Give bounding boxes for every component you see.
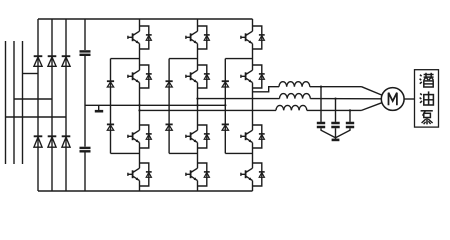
wire leg 2 Q4 to DC- rail — [197, 186, 199, 191]
phase A input line — [5, 41, 7, 164]
clamp diode D11 — [222, 81, 229, 87]
wire phase V output — [198, 98, 280, 100]
junction dot N line at leg1 — [138, 104, 140, 106]
wire leg 2 lower clamp jog — [169, 152, 197, 154]
wire A to rectifier leg — [6, 116, 67, 118]
wire leg 2 Q2-Q3 link — [197, 88, 199, 125]
wire inverter leg 3 top stub — [252, 19, 254, 26]
inductor L2 — [280, 94, 311, 99]
IGBT Q6 with antiparallel diode — [186, 65, 210, 88]
label box outline — [415, 70, 439, 127]
diode D6 — [62, 136, 71, 147]
filter capacitor C5 — [346, 123, 354, 127]
wire leg 1 lower clamp jog — [111, 152, 140, 154]
wire leg 2 Q1-Q2 link — [197, 49, 199, 65]
wire B to rectifier leg — [14, 98, 52, 100]
junction dot C4 tap — [334, 97, 336, 99]
filter capacitor C3 — [317, 123, 325, 127]
IGBT Q7 with antiparallel diode — [186, 125, 210, 148]
motor M1 label — [389, 93, 397, 106]
wire C2 to DC- rail — [84, 153, 86, 192]
wire leg 1 Q4 to DC- rail — [139, 186, 141, 191]
wire leg 3 lower clamp jog — [225, 152, 252, 154]
wire rectifier leg x=38 — [37, 19, 39, 191]
diode D2 — [34, 136, 43, 147]
IGBT Q12 with antiparallel diode — [241, 163, 265, 186]
filter star point marker — [332, 139, 340, 142]
IGBT Q10 with antiparallel diode — [241, 65, 265, 88]
wire leg 1 Q3-Q4 link — [139, 148, 141, 163]
junction dot phase U tap — [138, 109, 140, 111]
IGBT Q11 with antiparallel diode — [241, 125, 265, 148]
wire leg 3 upper clamp jog — [225, 58, 252, 60]
wire phase W staircase — [253, 87, 280, 92]
IGBT Q5 with antiparallel diode — [186, 26, 210, 49]
wire phase W slant to motor — [362, 87, 382, 95]
diode D1 — [34, 56, 43, 66]
IGBT Q3 with antiparallel diode — [128, 125, 152, 148]
wire leg 3 clamp column — [224, 59, 226, 154]
neutral point marker — [95, 105, 103, 111]
wire leg 1 Q2-Q3 link — [139, 88, 141, 125]
wire leg 2 Q3-Q4 link — [197, 148, 199, 163]
capacitor C2 — [80, 148, 91, 151]
junction dot N line end leg3 clamp — [224, 104, 226, 106]
wire C4 to star point — [335, 128, 337, 139]
wire leg 3 Q4 to DC- rail — [252, 186, 254, 191]
diode D4 — [48, 136, 57, 147]
wire rectifier leg x=66 — [65, 19, 67, 191]
clamp diode D10 — [166, 124, 173, 130]
wire leg 1 clamp column — [110, 59, 112, 154]
wire C to rectifier leg — [23, 73, 39, 75]
wire inverter leg 2 top stub — [197, 19, 199, 26]
phase B input line — [13, 41, 15, 164]
IGBT Q4 with antiparallel diode — [128, 163, 152, 186]
wire between C1 and C2 — [84, 56, 86, 147]
capacitor C1 — [80, 51, 91, 54]
junction dot C3 tap — [320, 86, 322, 88]
IGBT Q1 with antiparallel diode — [128, 26, 152, 49]
clamp diode D12 — [222, 124, 229, 130]
wire phase U output — [140, 109, 277, 111]
IGBT Q9 with antiparallel diode — [241, 26, 265, 49]
wire leg 3 Q2-Q3 link — [252, 88, 254, 125]
wire inverter leg 1 top stub — [139, 19, 141, 26]
diode D5 — [62, 56, 71, 66]
clamp diode D7 — [107, 81, 114, 87]
diode D3 — [48, 56, 57, 66]
inductor L1 — [279, 82, 310, 87]
wire DC- bottom rail — [38, 190, 253, 192]
junction dot phase V tap — [196, 97, 198, 99]
wire C4 drop — [335, 99, 337, 122]
IGBT Q8 with antiparallel diode — [186, 163, 210, 186]
wire C5 drop — [349, 110, 351, 122]
wire leg 3 Q1-Q2 link — [252, 49, 254, 65]
junction dot N line at leg2 — [196, 104, 198, 106]
wire leg 1 upper clamp jog — [111, 58, 140, 60]
wire leg 3 Q3-Q4 link — [252, 148, 254, 163]
wire DC midpoint N line — [85, 104, 225, 106]
wire rectifier leg x=52 — [51, 19, 53, 191]
wire C5 to star point — [336, 128, 351, 138]
phase C input line — [22, 41, 24, 164]
inductor L3 — [276, 105, 307, 110]
wire C3 drop — [320, 87, 322, 122]
wire phase U slant to motor — [362, 103, 382, 111]
wire DC link cap leg — [84, 19, 86, 50]
wire leg 1 Q1-Q2 link — [139, 49, 141, 65]
wire motor to label box — [404, 98, 415, 100]
clamp diode D8 — [107, 124, 114, 130]
IGBT Q2 with antiparallel diode — [128, 65, 152, 88]
filter capacitor C4 — [331, 123, 339, 127]
label text 泵 — [421, 111, 433, 125]
label text 油 — [420, 91, 434, 105]
wire phase U after L3 — [307, 109, 362, 111]
clamp diode D9 — [166, 81, 173, 87]
wire DC+ top rail — [38, 18, 253, 20]
label text 潜 — [420, 73, 434, 87]
wire leg 2 clamp column — [168, 59, 170, 154]
junction dot C5 tap — [349, 109, 351, 111]
motor M1 circle — [381, 88, 404, 111]
wire phase W after L1 — [310, 86, 362, 88]
wire C3 to star point — [321, 128, 336, 138]
wire phase V after L2 — [310, 98, 382, 100]
wire leg 2 upper clamp jog — [169, 58, 197, 60]
